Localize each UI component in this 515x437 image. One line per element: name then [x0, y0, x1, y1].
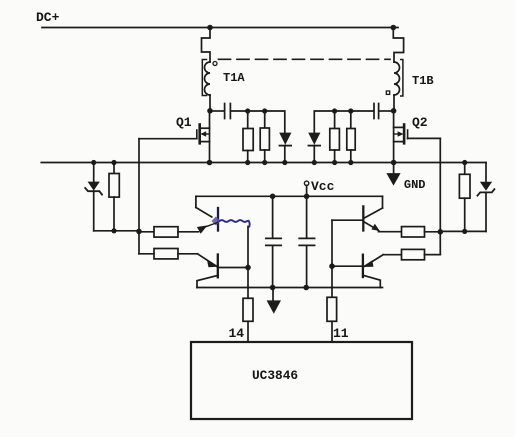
- resistor R6: [154, 227, 178, 237]
- mosfet Q2 gate bar: [407, 130, 409, 139]
- transformer T1B core: [401, 60, 403, 97]
- wire R6 right lead to upper driver emitter: [178, 231, 199, 233]
- node R1 top junction: [245, 108, 250, 113]
- ground arrow below driver bottom line: [272, 288, 274, 301]
- wire Q1 drain-source vertical: [209, 111, 211, 163]
- mosfet Q1 channel bar: [198, 125, 201, 144]
- wire D1 cathode to rail: [284, 146, 286, 163]
- wire Z1 cathode to snubber bottom: [93, 191, 95, 231]
- node junction DC+/T1A: [207, 25, 213, 31]
- node Vcc / top line junction: [304, 194, 310, 200]
- wire R11 to UC3846 pin 14: [247, 321, 249, 342]
- transformer T1A phasing dot: [213, 62, 217, 66]
- wire T1A bottom lead: [209, 95, 211, 111]
- transistor Q6 collector diagonal: [363, 275, 380, 287]
- wire R7 right lead to lower driver emitter: [178, 253, 198, 255]
- node rail junction R2: [262, 160, 267, 165]
- transistor Q5 base bar: [362, 206, 364, 230]
- svg-text:T1A: T1A: [223, 71, 245, 85]
- transistor Q5 collector diagonal: [365, 208, 383, 218]
- node C3 bottom junction: [270, 285, 276, 291]
- wire R9 right lead: [425, 254, 441, 256]
- node rail junction R3: [332, 160, 337, 165]
- mosfet Q1 drain stub: [200, 127, 210, 129]
- svg-text:Q1: Q1: [176, 115, 192, 130]
- transistor Q4 base lead: [219, 267, 248, 269]
- wire D2 cathode to rail: [313, 146, 315, 163]
- wire main horizontal rail: [41, 162, 486, 164]
- resistor R9: [402, 249, 425, 259]
- transformer T1B winding: [394, 62, 400, 95]
- node rail junction Q1 source: [207, 160, 213, 166]
- wire R10 top lead: [464, 163, 466, 175]
- wire right snubber bottom: [440, 230, 486, 232]
- wire D2 corner to C2: [314, 111, 373, 133]
- mosfet Q1 gate bar: [196, 130, 198, 139]
- resistor R7: [154, 249, 178, 259]
- transistor Q6 base lead: [332, 265, 362, 267]
- wire C2 to Q2 drain node: [380, 110, 394, 112]
- wire C1 to diode D1 corner: [231, 111, 284, 133]
- node rail junction R1: [245, 160, 250, 165]
- wire R3 top lead: [334, 111, 336, 129]
- power Vcc terminal: [304, 181, 308, 185]
- svg-text:Vcc: Vcc: [311, 179, 335, 194]
- wire Q2 gate drive vertical: [425, 138, 441, 254]
- wire R4 bottom lead: [350, 150, 352, 163]
- zener diode Z2: [480, 182, 492, 191]
- wire R12 to UC3846 pin 11: [331, 321, 333, 342]
- resistor R11 pin14: [243, 298, 253, 321]
- transistor Q3 blue blob: [212, 217, 221, 226]
- transformer T1A core: [202, 60, 206, 96]
- IC U1 UC3846 box: [191, 342, 412, 419]
- node gate drive / R6 junction: [136, 229, 142, 235]
- wire R2 top lead: [264, 111, 266, 128]
- svg-text:DC+: DC+: [36, 10, 60, 25]
- mosfet Q1 body arrow: [200, 131, 206, 137]
- mosfet Q2 body arrow: [398, 131, 404, 137]
- resistor R4: [347, 129, 355, 151]
- wire R3 bottom lead: [334, 150, 336, 163]
- svg-text:T1B: T1B: [412, 74, 434, 88]
- transistor Q3 emitter arrow: [197, 225, 208, 233]
- diode D2: [308, 133, 320, 145]
- node rail junction D1: [282, 160, 287, 165]
- svg-text:UC3846: UC3846: [252, 368, 298, 383]
- transistor Q6 emitter diagonal with arrow: [365, 255, 384, 267]
- capacitor C2: [374, 104, 379, 119]
- wire driver Vcc top line: [196, 195, 383, 197]
- transistor Q4 base bar: [217, 255, 219, 278]
- transistor Q4 emitter diagonal with arrow: [198, 254, 217, 266]
- wire driver bottom line: [197, 287, 383, 289]
- resistor R12 pin11: [327, 297, 337, 321]
- transistor Q3 collector diagonal: [196, 208, 212, 218]
- wire Z1 anode lead: [93, 163, 95, 182]
- node C4 bottom junction: [303, 285, 309, 291]
- wire dashed coupling line T1A-T1B: [219, 58, 391, 60]
- svg-text:GND: GND: [404, 178, 426, 192]
- wire Q1 gate drive vertical: [138, 139, 140, 254]
- ground GND arrow at Q2 source: [393, 163, 395, 174]
- zener diode Z1: [88, 182, 100, 191]
- transistor Q3 base squiggle (blue): [220, 220, 250, 226]
- mosfet Q2 channel bar: [403, 125, 406, 144]
- node driver B output junction: [329, 263, 335, 269]
- svg-text:Q2: Q2: [412, 115, 428, 130]
- transistor Q5 emitter diagonal with arrow: [364, 222, 378, 231]
- wire driver A output vertical: [247, 227, 249, 299]
- wire R5 bottom lead: [113, 197, 115, 231]
- node rail junction R10: [462, 160, 467, 165]
- wire Q2 drain-source vertical: [393, 111, 395, 163]
- node junction DC+/T1B: [391, 25, 397, 31]
- svg-text:14: 14: [229, 326, 245, 341]
- wire left snubber bottom: [94, 230, 139, 232]
- node T1A/Q1 drain junction: [207, 108, 213, 114]
- wire R2 bottom lead: [264, 150, 266, 163]
- wire driver top-right corner drop: [382, 196, 384, 208]
- node left snubber/R5 junction: [111, 228, 116, 233]
- svg-text:11: 11: [333, 326, 349, 341]
- diode D1: [279, 133, 291, 145]
- wire R6 left lead: [139, 231, 154, 233]
- wire Q1 gate lead: [139, 138, 197, 140]
- node T1B/Q2 drain junction: [391, 108, 397, 114]
- node right snubber / R10 junction: [462, 229, 467, 234]
- wire R1 bottom lead: [247, 151, 249, 163]
- node C3 top junction: [270, 194, 276, 200]
- node R4 top junction: [348, 108, 353, 113]
- wire DC+ rail: [42, 27, 398, 29]
- wire T1B primary jog: [393, 28, 403, 63]
- resistor R8: [402, 227, 425, 237]
- node rail junction R5: [111, 160, 116, 165]
- mosfet Q2 drain stub: [394, 126, 405, 128]
- wire R4 top lead: [350, 111, 352, 129]
- wire T1A primary jog: [202, 28, 211, 63]
- wire Q6 emitter to R9: [383, 254, 401, 256]
- resistor R1: [243, 129, 253, 151]
- node rail junction D2: [312, 160, 317, 165]
- wire R5 top lead: [113, 163, 115, 174]
- wire node to capacitor C1: [210, 110, 224, 112]
- transistor Q4 collector diagonal: [197, 275, 218, 287]
- wire driver top-left corner drop: [195, 196, 197, 207]
- node R2 top junction: [262, 108, 267, 113]
- capacitor C1: [225, 104, 231, 119]
- node rail junction zener Z1: [91, 160, 96, 165]
- transformer T1B phasing mark: [386, 91, 389, 94]
- node rail junction Q2 source: [391, 160, 397, 166]
- resistor R2: [260, 128, 269, 150]
- capacitor C4: [299, 196, 314, 287]
- node rail junction R4: [348, 160, 353, 165]
- wire R1 top lead: [247, 111, 249, 129]
- wire R10 bottom lead: [464, 198, 466, 231]
- wire R8 right lead: [425, 231, 441, 233]
- resistor R3: [330, 129, 340, 151]
- transistor Q3 base bar: [217, 208, 219, 231]
- transistor Q6 base bar: [362, 255, 364, 277]
- wire Q2 gate lead: [408, 137, 441, 139]
- resistor R10: [459, 174, 470, 198]
- resistor R5: [109, 174, 119, 198]
- mosfet Q2 source stub: [394, 141, 405, 143]
- wire Z2 anode lead: [485, 163, 487, 182]
- wire T1B bottom lead: [393, 95, 395, 111]
- transistor Q5 base lead: [332, 219, 362, 221]
- node driver A output junction: [245, 265, 251, 271]
- node R3 top junction: [332, 108, 337, 113]
- transformer T1A winding: [205, 62, 210, 95]
- mosfet Q1 source stub: [200, 141, 210, 143]
- wire Z2 cathode to snubber bottom: [485, 192, 487, 231]
- node gate drive / R8 junction: [438, 229, 444, 235]
- wire driver B output vertical: [331, 220, 333, 297]
- capacitor C3: [266, 196, 281, 287]
- wire R7 left lead: [139, 253, 154, 255]
